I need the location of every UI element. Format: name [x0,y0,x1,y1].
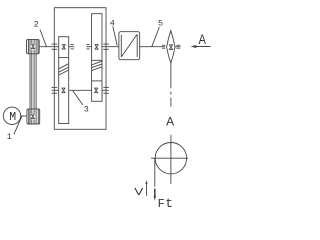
svg-text:F: F [158,197,165,210]
svg-text:t: t [165,196,173,210]
svg-text:5: 5 [158,19,163,29]
svg-text:A: A [166,115,174,129]
svg-text:A: A [198,32,206,47]
svg-text:V: V [134,186,143,198]
svg-text:M: M [9,111,16,124]
svg-text:4: 4 [110,19,115,29]
svg-text:1: 1 [7,132,12,142]
svg-text:3: 3 [84,105,89,115]
svg-text:2: 2 [34,19,39,29]
